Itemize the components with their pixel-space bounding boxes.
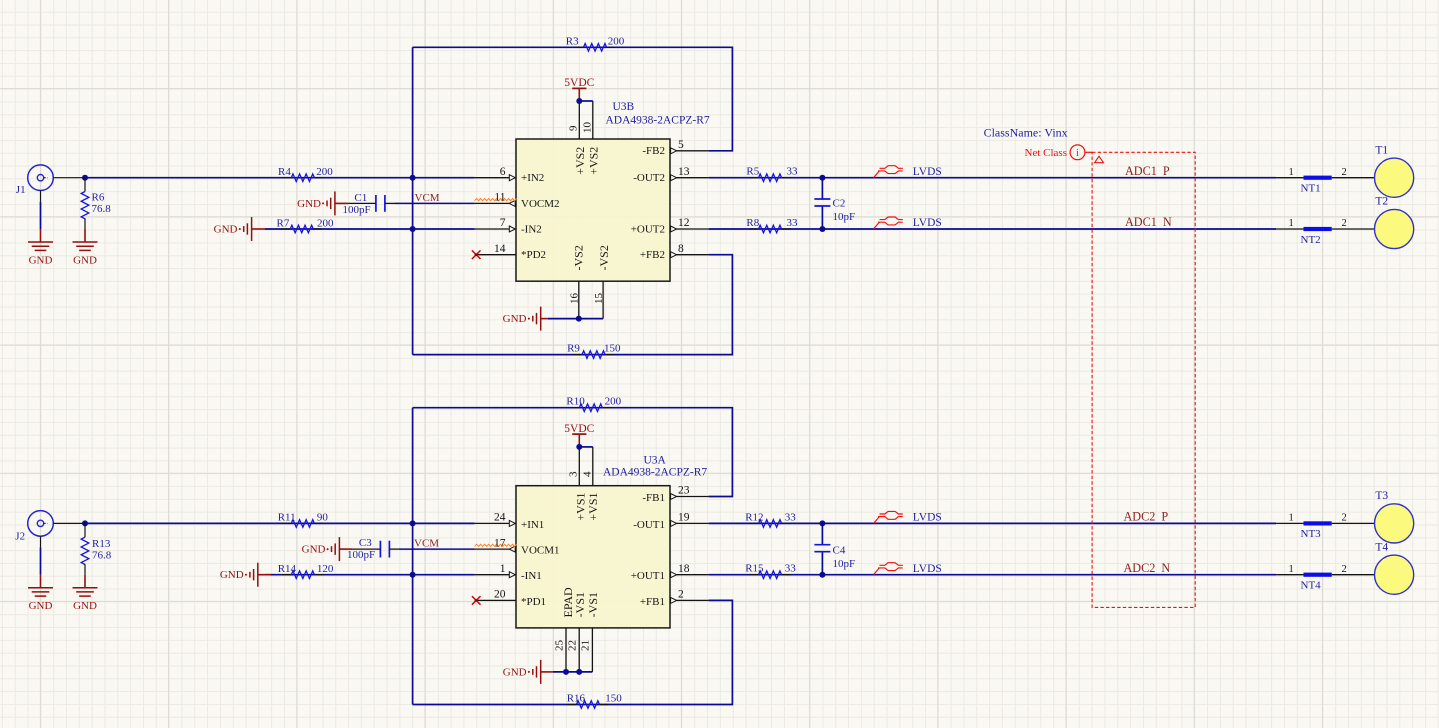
svg-text:2: 2: [1342, 564, 1347, 575]
svg-text:200: 200: [605, 396, 622, 408]
svg-text:33: 33: [785, 511, 797, 523]
svg-text:ADA4938-2ACPZ-R7: ADA4938-2ACPZ-R7: [606, 114, 710, 126]
svg-text:-IN1: -IN1: [521, 570, 542, 582]
svg-text:VOCM1: VOCM1: [521, 545, 560, 557]
svg-text:100pF: 100pF: [343, 204, 371, 216]
svg-text:R9: R9: [567, 343, 580, 355]
svg-text:8: 8: [678, 243, 684, 255]
svg-text:16: 16: [569, 293, 581, 305]
svg-text:-VS2: -VS2: [572, 245, 586, 270]
svg-text:150: 150: [605, 693, 622, 705]
svg-text:GND: GND: [214, 223, 238, 235]
svg-text:R12: R12: [745, 511, 763, 523]
svg-text:3: 3: [568, 471, 580, 477]
svg-text:LVDS: LVDS: [913, 217, 942, 229]
svg-text:R5: R5: [746, 166, 759, 178]
svg-text:2: 2: [1342, 513, 1347, 524]
svg-text:ADA4938-2ACPZ-R7: ADA4938-2ACPZ-R7: [603, 467, 707, 479]
svg-text:33: 33: [787, 166, 799, 178]
svg-text:C2: C2: [833, 197, 846, 209]
svg-text:120: 120: [317, 563, 334, 575]
svg-text:76.8: 76.8: [92, 550, 112, 562]
svg-text:R7: R7: [277, 217, 290, 229]
svg-text:-FB1: -FB1: [642, 492, 665, 504]
svg-text:GND: GND: [503, 313, 527, 325]
svg-text:23: 23: [678, 485, 690, 497]
svg-text:+VS1: +VS1: [586, 492, 600, 520]
svg-text:i: i: [1076, 148, 1079, 159]
svg-text:R16: R16: [567, 693, 586, 705]
svg-text:1: 1: [1289, 564, 1294, 575]
svg-text:U3B: U3B: [613, 101, 635, 113]
svg-text:1: 1: [1289, 218, 1294, 229]
svg-text:ADC2 N: ADC2 N: [1124, 561, 1171, 575]
svg-text:-FB2: -FB2: [642, 145, 665, 157]
svg-text:-VS1: -VS1: [586, 592, 600, 617]
svg-text:+VS2: +VS2: [573, 147, 587, 175]
svg-text:NT3: NT3: [1301, 528, 1322, 540]
svg-text:R8: R8: [746, 217, 759, 229]
svg-text:R11: R11: [278, 512, 296, 524]
svg-text:LVDS: LVDS: [913, 512, 942, 524]
svg-text:GND: GND: [73, 255, 97, 267]
svg-text:LVDS: LVDS: [913, 166, 942, 178]
svg-text:R6: R6: [92, 192, 105, 204]
svg-text:4: 4: [582, 471, 594, 477]
svg-text:7: 7: [500, 217, 506, 229]
svg-text:+FB1: +FB1: [640, 596, 665, 608]
svg-text:*PD1: *PD1: [521, 596, 546, 608]
svg-text:GND: GND: [29, 600, 53, 612]
svg-text:ADC1 P: ADC1 P: [1125, 164, 1170, 178]
svg-text:2: 2: [1342, 167, 1347, 178]
svg-text:33: 33: [787, 217, 799, 229]
svg-text:22: 22: [567, 640, 579, 651]
svg-text:+IN1: +IN1: [521, 519, 544, 531]
svg-text:150: 150: [604, 343, 621, 355]
svg-text:GND: GND: [73, 600, 97, 612]
svg-text:33: 33: [785, 563, 797, 575]
svg-text:+VS2: +VS2: [587, 147, 601, 175]
svg-text:ADC1 N: ADC1 N: [1125, 215, 1172, 229]
svg-text:14: 14: [494, 243, 506, 255]
svg-text:NT4: NT4: [1301, 580, 1322, 592]
svg-text:11: 11: [494, 192, 505, 204]
svg-text:18: 18: [678, 563, 690, 575]
svg-text:*PD2: *PD2: [521, 249, 546, 261]
svg-text:VCM: VCM: [415, 192, 440, 204]
svg-text:T4: T4: [1375, 541, 1388, 553]
svg-text:+OUT1: +OUT1: [631, 570, 665, 582]
svg-text:10pF: 10pF: [833, 558, 856, 570]
svg-text:12: 12: [678, 217, 690, 229]
svg-text:C1: C1: [354, 192, 367, 204]
svg-text:R13: R13: [92, 538, 111, 550]
svg-text:-OUT1: -OUT1: [633, 519, 665, 531]
svg-text:17: 17: [494, 537, 506, 549]
svg-text:LVDS: LVDS: [913, 563, 942, 575]
svg-text:2: 2: [1342, 218, 1347, 229]
svg-text:19: 19: [678, 512, 690, 524]
svg-text:GND: GND: [503, 666, 527, 678]
svg-text:10pF: 10pF: [833, 211, 856, 223]
svg-text:R3: R3: [566, 35, 579, 47]
svg-text:GND: GND: [29, 255, 53, 267]
svg-text:Net Class: Net Class: [1025, 147, 1067, 159]
svg-text:5VDC: 5VDC: [564, 77, 594, 89]
svg-text:C3: C3: [359, 537, 372, 549]
svg-text:25: 25: [554, 640, 566, 652]
svg-text:1: 1: [500, 563, 506, 575]
svg-text:20: 20: [494, 589, 506, 601]
svg-text:R4: R4: [278, 166, 291, 178]
svg-text:21: 21: [580, 640, 592, 651]
svg-text:NT1: NT1: [1301, 183, 1321, 195]
svg-text:GND: GND: [297, 198, 321, 210]
svg-text:2: 2: [678, 589, 684, 601]
svg-text:-IN2: -IN2: [521, 224, 542, 236]
svg-text:5VDC: 5VDC: [564, 423, 594, 435]
svg-text:200: 200: [317, 217, 334, 229]
svg-text:1: 1: [1289, 167, 1294, 178]
svg-text:13: 13: [678, 166, 690, 178]
svg-text:C4: C4: [833, 545, 846, 557]
svg-text:U3A: U3A: [644, 455, 667, 467]
svg-text:24: 24: [494, 512, 506, 524]
svg-text:200: 200: [608, 35, 625, 47]
svg-text:ADC2 P: ADC2 P: [1124, 509, 1169, 523]
svg-text:J1: J1: [16, 184, 26, 196]
svg-text:5: 5: [678, 139, 684, 151]
svg-text:-VS2: -VS2: [597, 245, 611, 270]
svg-text:J2: J2: [15, 531, 25, 543]
svg-text:1: 1: [1289, 513, 1294, 524]
svg-text:90: 90: [317, 512, 329, 524]
svg-text:T1: T1: [1375, 144, 1388, 156]
svg-text:GND: GND: [302, 544, 326, 556]
svg-text:15: 15: [593, 293, 605, 305]
svg-text:76.8: 76.8: [92, 203, 112, 215]
svg-text:10: 10: [582, 122, 594, 134]
svg-text:+IN2: +IN2: [521, 172, 544, 184]
svg-text:R15: R15: [745, 563, 764, 575]
svg-text:NT2: NT2: [1301, 234, 1321, 246]
svg-text:200: 200: [316, 166, 333, 178]
svg-text:VOCM2: VOCM2: [521, 198, 560, 210]
svg-text:ClassName: Vinx: ClassName: Vinx: [984, 126, 1068, 140]
svg-text:9: 9: [568, 125, 580, 131]
svg-text:+FB2: +FB2: [640, 249, 665, 261]
svg-text:GND: GND: [220, 569, 244, 581]
svg-text:+OUT2: +OUT2: [631, 224, 665, 236]
svg-text:R10: R10: [566, 396, 585, 408]
svg-text:T3: T3: [1375, 490, 1388, 502]
svg-text:R14: R14: [278, 563, 297, 575]
svg-text:100pF: 100pF: [347, 549, 375, 561]
svg-text:6: 6: [500, 166, 506, 178]
svg-text:T2: T2: [1375, 196, 1388, 208]
svg-text:-VS1: -VS1: [573, 592, 587, 617]
svg-text:VCM: VCM: [414, 537, 439, 549]
svg-text:-OUT2: -OUT2: [633, 172, 665, 184]
